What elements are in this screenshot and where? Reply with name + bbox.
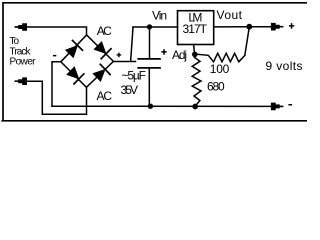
arrowhead left bottom (To Track Power -AC) (15, 77, 28, 85)
arrowhead left top (To Track Power +AC) (15, 23, 28, 31)
svg-text:Vout: Vout (217, 8, 243, 22)
capacitor C1 bottom lead (148, 68, 150, 106)
svg-text:Adj: Adj (172, 48, 187, 62)
capacitor C1 bottom plate (138, 67, 160, 69)
minus sign at bridge left vertex (53, 55, 56, 57)
plus sign at bridge right vertex (117, 53, 122, 58)
capacitor C1 top plate (138, 58, 160, 60)
resistor R2 680 zigzag (192, 54, 201, 106)
diode D2 triangle (94, 42, 105, 53)
svg-text:9 volts: 9 volts (266, 59, 303, 73)
svg-text:AC: AC (97, 24, 112, 38)
capacitor C1 top lead (149, 27, 151, 58)
minus sign at - output (288, 104, 292, 106)
svg-text:317T: 317T (183, 22, 208, 36)
wire bottom rail (negative) (52, 105, 272, 107)
wire bridge plus output: right vertex right, stub, up to Vin rail (113, 27, 135, 61)
plus sign at capacitor (161, 49, 166, 55)
svg-text:Vin: Vin (152, 9, 167, 23)
wire top AC: arrow shaft to bridge top vertex (16, 27, 87, 35)
wire bridge minus output: left vertex to left, down to bottom rail (52, 62, 61, 106)
diode D3 cathode bar (bottom-left edge) (74, 74, 84, 84)
wire Vin rail to LM box (133, 26, 178, 28)
resistor R1 100 zigzag (197, 53, 245, 62)
svg-text:AC: AC (97, 89, 113, 103)
wire Vout rail: box to output arrow (214, 26, 272, 28)
junction dot Vin/cap (147, 24, 152, 29)
svg-text:100: 100 (210, 62, 230, 76)
svg-text:680: 680 (207, 80, 225, 94)
diode D2 cathode bar (top-right edge) (101, 49, 111, 59)
wire Adj pin from box bottom to Adj node (193, 45, 196, 54)
diode D4 triangle (93, 70, 105, 81)
svg-text:Power: Power (10, 56, 37, 67)
bridge rectifier diamond edges (61, 35, 114, 87)
wire Vout down to resistor R1 (100) right end (245, 27, 250, 55)
arrowhead right top (+ output) (271, 23, 284, 31)
junction dot cap bottom / rail (148, 104, 153, 109)
junction dot 680 bottom / rail (192, 104, 198, 110)
diode D4 cathode bar (bottom-right edge) (100, 64, 110, 74)
junction dot Vout/R1 (246, 24, 252, 30)
svg-text:35V: 35V (121, 83, 139, 97)
arrowhead right bottom (- output) (271, 103, 284, 111)
junction dot Adj node (192, 52, 198, 58)
plus sign at + output (289, 23, 294, 29)
wire bottom AC loop: arrow shaft, down, right, up to bridge bottom vertex (16, 81, 87, 114)
LM317 regulator U1 box (178, 11, 214, 45)
border frame (2, 3, 307, 121)
diode D1 triangle (66, 46, 77, 58)
svg-text:~5µF: ~5µF (122, 69, 147, 83)
diode D1 cathode bar (top-left edge) (73, 41, 83, 51)
diode D3 triangle (67, 67, 78, 78)
